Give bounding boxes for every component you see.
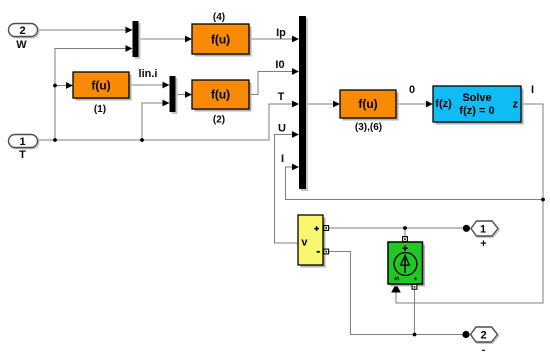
svg-text:I: I — [281, 153, 284, 165]
svg-text:I: I — [531, 84, 534, 96]
svg-text:f(u): f(u) — [211, 33, 230, 47]
svg-text:f(u): f(u) — [91, 79, 110, 93]
svg-text:v: v — [301, 237, 308, 249]
svg-text:1: 1 — [19, 136, 25, 148]
svg-text:(3),(6): (3),(6) — [355, 122, 382, 133]
svg-text:T: T — [19, 149, 26, 161]
svg-text:2: 2 — [19, 25, 25, 37]
svg-text:I0: I0 — [275, 59, 284, 71]
svg-text:f(z): f(z) — [435, 98, 452, 110]
svg-text:2: 2 — [480, 330, 486, 342]
svg-text:-: - — [482, 344, 486, 356]
svg-text:Ip: Ip — [276, 27, 286, 39]
svg-text:f(z) = 0: f(z) = 0 — [459, 105, 494, 117]
svg-text:W: W — [16, 39, 27, 51]
svg-text:z: z — [513, 99, 519, 111]
svg-text:(1): (1) — [94, 104, 106, 115]
svg-text:(4): (4) — [213, 12, 225, 23]
svg-text:T: T — [278, 91, 285, 103]
svg-text:U: U — [278, 123, 286, 135]
svg-text:f(u): f(u) — [358, 97, 377, 111]
svg-text:lin.i: lin.i — [139, 68, 158, 80]
svg-text:s: s — [392, 276, 401, 281]
svg-text:+: + — [480, 238, 486, 250]
svg-text:0: 0 — [409, 84, 415, 96]
svg-text:(2): (2) — [213, 115, 225, 126]
svg-text:1: 1 — [480, 224, 486, 236]
svg-text:f(u): f(u) — [211, 88, 230, 102]
svg-text:Solve: Solve — [462, 92, 491, 104]
